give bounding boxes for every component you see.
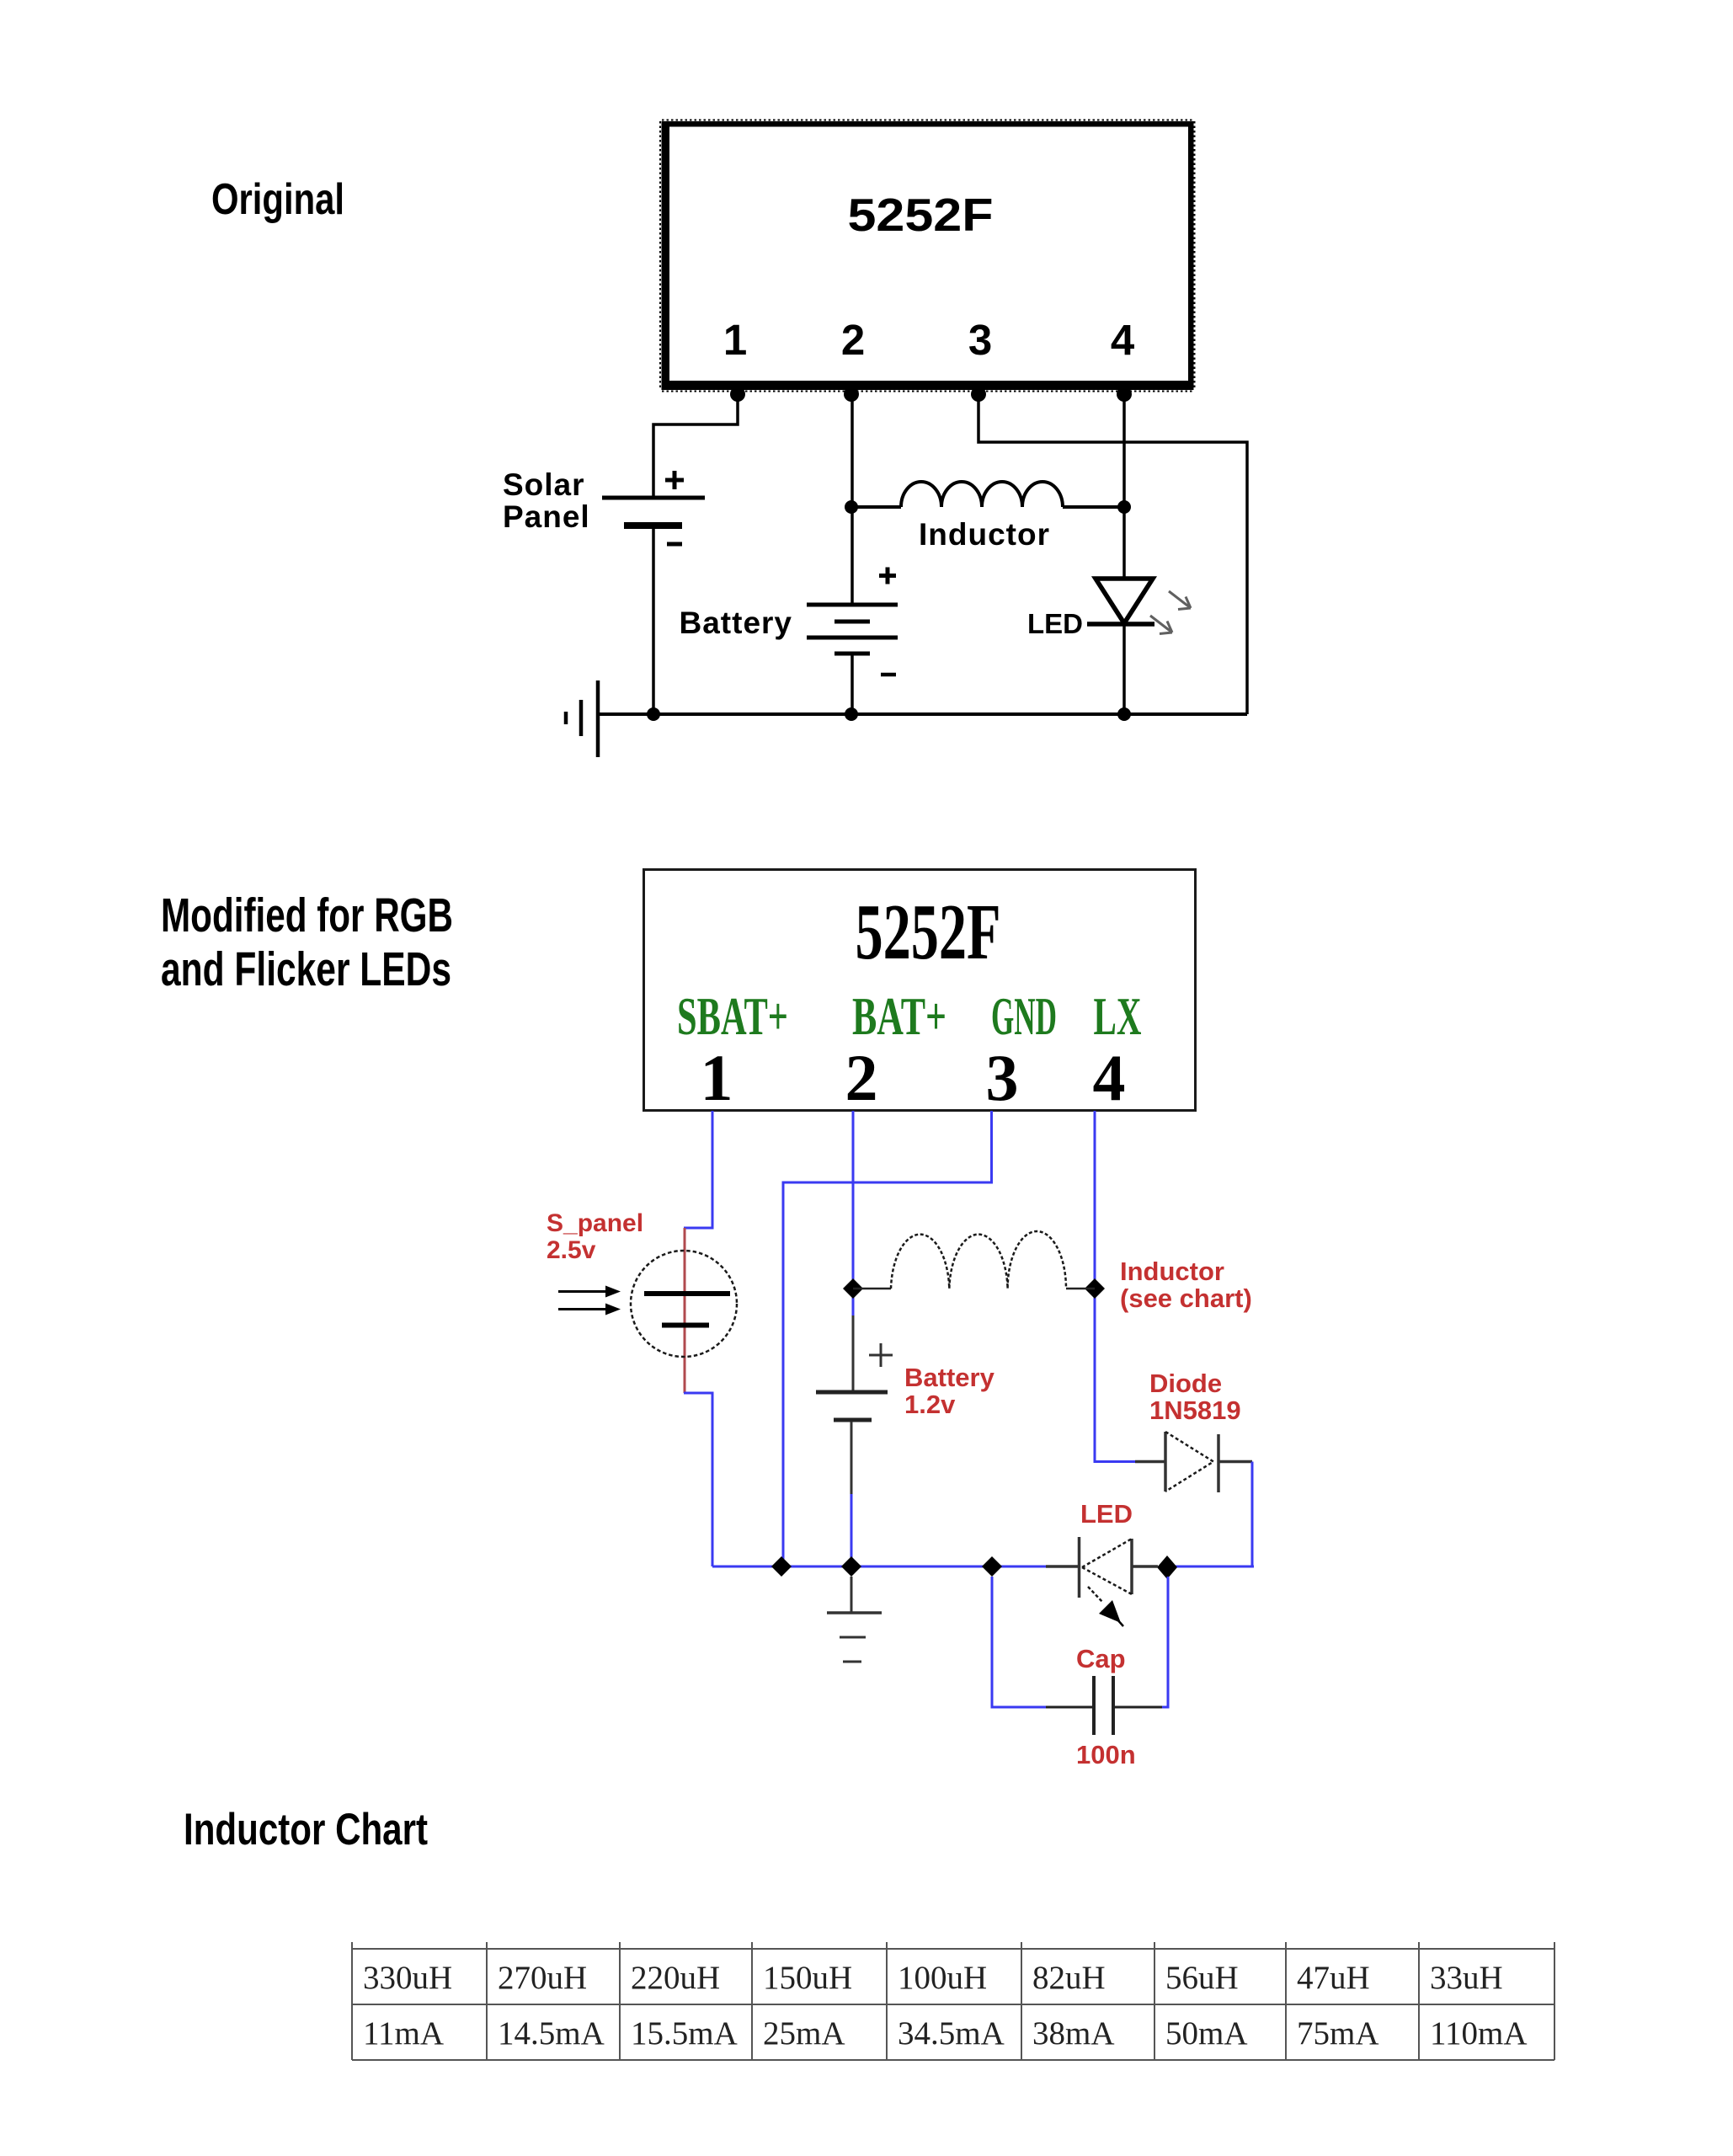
svg-text:Inductor: Inductor (1120, 1257, 1224, 1286)
inductor chart table grid (352, 1942, 1554, 2060)
pin number 1 (middle IC) (701, 1041, 733, 1114)
node diamond cap-left / rail (982, 1556, 1002, 1577)
title Original (211, 175, 344, 224)
pin number 2 (middle IC) (845, 1041, 878, 1114)
svg-text:5252F: 5252F (848, 189, 994, 241)
node solar/rail (647, 707, 660, 721)
wire rail to cap left (blue) (992, 1577, 1046, 1707)
svg-text:Inductor Chart: Inductor Chart (184, 1805, 428, 1854)
svg-text:100uH: 100uH (898, 1960, 987, 1996)
label Inductor (919, 517, 1050, 552)
svg-text:Battery: Battery (680, 606, 793, 640)
svg-text:LED: LED (1027, 608, 1083, 639)
svg-text:GND: GND (991, 986, 1057, 1046)
svg-text:Panel: Panel (503, 499, 590, 534)
svg-text:Cap: Cap (1076, 1644, 1126, 1673)
svg-text:25mA: 25mA (763, 2015, 845, 2052)
pin number 3 (top IC) (968, 316, 992, 364)
wire pin1 to solar panel (653, 390, 738, 496)
LED D1 cathode bar (1087, 622, 1154, 627)
bottom rail right segment (blue) (1164, 1566, 1254, 1568)
pin 1 terminal dot (730, 387, 745, 402)
svg-text:47uH: 47uH (1297, 1960, 1370, 1996)
svg-text:1: 1 (723, 316, 747, 364)
LED D3 leads (black) (1046, 1565, 1158, 1568)
svg-text:1: 1 (701, 1041, 733, 1114)
capacitor C1 left lead (1046, 1706, 1092, 1709)
svg-text:3: 3 (968, 316, 992, 364)
battery B1 plus sign (869, 1343, 893, 1367)
wire diode cathode down to rail (blue) (1251, 1462, 1254, 1567)
pin 3 terminal dot (971, 387, 986, 402)
LED D3 triangle (1082, 1539, 1132, 1594)
label S_panel 2.5v (547, 1209, 643, 1264)
svg-text:50mA: 50mA (1165, 2015, 1248, 2052)
table row 1 inductance values (363, 1960, 1503, 1996)
capacitor C1 plates (1094, 1676, 1113, 1735)
wire through solar panel (red) (684, 1228, 686, 1393)
LED light arrow 2 (1150, 616, 1172, 634)
node diamond pin2/inductor (843, 1278, 863, 1299)
IC U1 value label 5252F (848, 189, 994, 241)
wire pin1 SBAT+ (blue) (684, 1111, 712, 1228)
pin number 2 (top IC) (841, 316, 865, 364)
svg-text:Diode: Diode (1149, 1369, 1222, 1398)
label Battery 1.2v (904, 1363, 995, 1419)
battery B1 bottom lead (851, 1422, 853, 1566)
svg-text:2: 2 (845, 1041, 878, 1114)
battery BT2 minus sign (881, 673, 896, 677)
svg-text:LED: LED (1080, 1499, 1133, 1529)
label Battery (680, 606, 793, 640)
node diamond LED-right / rail (1157, 1556, 1177, 1579)
solar panel PV1 plates (644, 1294, 730, 1326)
solar panel plus sign (665, 471, 684, 489)
diode D2 triangle (1165, 1432, 1213, 1492)
sunlight arrow 2 (558, 1304, 621, 1315)
svg-text:1.2v: 1.2v (904, 1390, 956, 1419)
title Inductor Chart (184, 1805, 428, 1854)
svg-text:Original: Original (211, 175, 344, 224)
svg-text:2.5v: 2.5v (547, 1236, 596, 1264)
svg-text:Solar: Solar (503, 467, 585, 502)
svg-text:220uH: 220uH (631, 1960, 720, 1996)
svg-text:75mA: 75mA (1297, 2015, 1379, 2052)
svg-text:34.5mA: 34.5mA (898, 2015, 1005, 2052)
pin 2 terminal dot (844, 387, 859, 402)
svg-text:82uH: 82uH (1032, 1960, 1106, 1996)
svg-text:33uH: 33uH (1430, 1960, 1503, 1996)
ground symbol (top) (566, 680, 598, 757)
pin 4 terminal dot (1117, 387, 1132, 402)
wire solar panel to ground rail (652, 527, 655, 714)
wire pin3 to right rail (978, 390, 1247, 714)
svg-text:110mA: 110mA (1430, 2015, 1528, 2052)
pin number 4 (top IC) (1111, 316, 1135, 364)
pin label BAT+ (852, 986, 946, 1046)
title Modified for RGB and Flicker LEDs (161, 889, 453, 996)
wire cap right up to rail (blue) (1162, 1577, 1168, 1707)
node battery/rail (845, 707, 858, 721)
svg-text:150uH: 150uH (763, 1960, 852, 1996)
node LED/rail (1117, 707, 1131, 721)
svg-text:Battery: Battery (904, 1363, 995, 1392)
svg-text:Inductor: Inductor (919, 517, 1050, 552)
label Cap (1076, 1644, 1126, 1673)
wire pin3 GND (blue) (783, 1111, 992, 1566)
svg-text:11mA: 11mA (363, 2015, 444, 2052)
battery BT2 plus sign (879, 568, 896, 584)
ground rail (top circuit) (597, 712, 1247, 716)
label 100n (1076, 1740, 1136, 1769)
wire pin4 LX (blue) (1095, 1111, 1135, 1462)
svg-text:3: 3 (986, 1041, 1019, 1114)
svg-text:5252F: 5252F (856, 889, 1001, 976)
svg-text:S_panel: S_panel (547, 1209, 643, 1237)
ground symbol (middle) bars (827, 1613, 882, 1662)
LED light arrow 1 (1169, 591, 1191, 610)
sunlight arrow 1 (558, 1286, 621, 1298)
pin number 3 (middle IC) (986, 1041, 1019, 1114)
node diamond GND pin3 / rail (771, 1556, 792, 1577)
pin number 4 (middle IC) (1093, 1041, 1126, 1114)
wire pin2 BAT+ (blue) (852, 1111, 855, 1315)
svg-text:330uH: 330uH (363, 1960, 452, 1996)
wire LED to ground rail (1122, 626, 1126, 714)
wire solar bottom to rail (blue) (684, 1393, 712, 1566)
IC U2 value label 5252F (stencil) (856, 889, 1001, 976)
svg-text:LX: LX (1094, 986, 1142, 1046)
battery B1 top lead (852, 1315, 855, 1391)
svg-text:38mA: 38mA (1032, 2015, 1115, 2052)
LED D3 emission arrow (1088, 1587, 1123, 1626)
svg-text:4: 4 (1111, 316, 1135, 364)
label LED (1027, 608, 1083, 639)
wire pin2 down to battery (851, 390, 854, 605)
solar panel PV1 circle (631, 1251, 737, 1357)
diode D2 leads (1135, 1460, 1252, 1464)
wire pin4 down to LED (1122, 390, 1126, 579)
LED D1 (top) triangle (1096, 579, 1153, 623)
label Inductor (see chart) (1120, 1257, 1252, 1313)
node diamond battery / rail (841, 1556, 861, 1577)
LED D3 cathode bar (1078, 1537, 1081, 1598)
ground symbol (middle) lead (851, 1577, 853, 1613)
IC U1 5252F box (top) (660, 120, 1195, 392)
svg-text:2: 2 (841, 316, 865, 364)
svg-text:15.5mA: 15.5mA (631, 2015, 738, 2052)
node junction inductor right / pin4 (1117, 500, 1131, 514)
label Diode 1N5819 (1149, 1369, 1241, 1425)
svg-text:and Flicker LEDs: and Flicker LEDs (161, 942, 451, 996)
svg-text:(see chart): (see chart) (1120, 1283, 1252, 1313)
svg-text:1N5819: 1N5819 (1149, 1396, 1241, 1425)
pin label GND (991, 986, 1057, 1046)
inductor L1 (top) (851, 482, 1124, 507)
pin label SBAT+ (677, 986, 788, 1046)
node junction pin2/inductor (845, 500, 858, 514)
wire battery to ground rail (851, 654, 854, 714)
pin number 1 (top IC) (723, 316, 747, 364)
node diamond LX/inductor (1085, 1278, 1105, 1299)
svg-text:100n: 100n (1076, 1740, 1136, 1769)
capacitor C1 right lead (1115, 1706, 1162, 1709)
bottom rail left segment (blue) (712, 1566, 1046, 1568)
solar panel cell BT1 plates (602, 498, 705, 526)
diode D2 cathode bar (1217, 1434, 1220, 1492)
table row 2 current values (363, 2015, 1528, 2052)
svg-text:4: 4 (1093, 1041, 1126, 1114)
solar panel minus sign (667, 542, 682, 547)
svg-text:SBAT+: SBAT+ (677, 986, 788, 1046)
svg-text:56uH: 56uH (1165, 1960, 1239, 1996)
IC U2 5252F box (middle) (644, 870, 1196, 1111)
battery B1 plates (816, 1392, 888, 1420)
svg-text:BAT+: BAT+ (852, 986, 946, 1046)
inductor L2 (middle, dashed) (853, 1231, 1095, 1289)
svg-text:14.5mA: 14.5mA (498, 2015, 605, 2052)
battery BT2 plates (807, 605, 898, 654)
label Solar Panel (503, 467, 590, 534)
pin label LX (1094, 986, 1142, 1046)
svg-text:270uH: 270uH (498, 1960, 587, 1996)
label LED (middle) (1080, 1499, 1133, 1529)
svg-text:Modified for RGB: Modified for RGB (161, 889, 453, 942)
